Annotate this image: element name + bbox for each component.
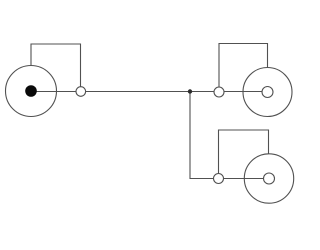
connector P1: RCA plug body (left) — [6, 66, 57, 117]
wire: main signal line left plug center to top-right jack center — [31, 91, 268, 93]
connector J2: RCA jack body (bottom right) — [244, 154, 293, 203]
connector J1: shield contact circle — [214, 87, 224, 97]
connector J1: RCA jack body (top right) — [243, 68, 292, 117]
connector J1: center socket circle — [262, 87, 273, 98]
wire: branch down from junction to bottom-right jack — [190, 92, 269, 179]
connector P1: shield contact circle — [76, 87, 86, 97]
connector P1: center pin (filled) — [25, 85, 37, 97]
wire: left loop from plug P1 shell top to shield contact — [31, 44, 81, 87]
connector J2: shield contact circle — [214, 174, 224, 184]
wire: bottom-right loop from shield contact to jack J2 shell top — [219, 130, 269, 174]
wire: top-right loop from shield contact to jack J1 shell top — [219, 44, 268, 88]
node: junction dot on main line — [188, 89, 192, 93]
connector J2: center socket circle — [264, 173, 275, 184]
